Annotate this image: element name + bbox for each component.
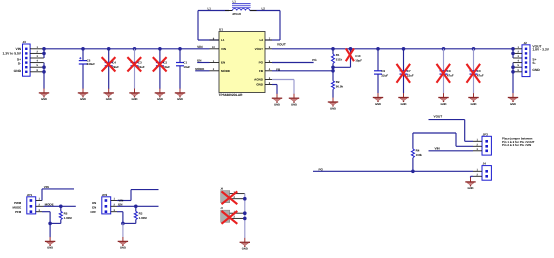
connector JP1 (MODE select): [27, 193, 44, 214]
J2 pin labels (VOUT 1.8V - 3.3V S+ S- GND): [532, 45, 549, 72]
svg-text:TPS63802DLAR: TPS63802DLAR: [219, 94, 243, 98]
wire L1/L2 inductor loop: [198, 11, 280, 41]
svg-text:R1: R1: [336, 54, 340, 57]
node VIN (net stub at JP2): [117, 190, 159, 203]
svg-text:5: 5: [37, 64, 39, 67]
ground (C4): [104, 89, 114, 102]
connector J7 (DNP): [220, 207, 245, 224]
svg-text:PG: PG: [312, 59, 317, 63]
svg-text:AGND: AGND: [254, 78, 263, 82]
svg-text:6: 6: [518, 69, 520, 72]
connector J2: [513, 41, 530, 76]
svg-text:C7: C7: [407, 69, 411, 73]
svg-text:5: 5: [269, 60, 271, 63]
svg-text:GND: GND: [330, 107, 336, 110]
svg-text:10: 10: [212, 46, 215, 49]
svg-text:470nH: 470nH: [232, 13, 241, 17]
svg-text:1: 1: [477, 169, 479, 172]
svg-text:R5: R5: [64, 213, 68, 216]
J3 pin labels (VIN 1.3V to 5.5V S+ S- GND): [2, 48, 21, 73]
connector JP2 (EN select): [102, 193, 117, 214]
JP2 position labels (ON EN OFF): [90, 201, 96, 214]
connector J4 (PG header): [473, 162, 491, 180]
ground (C9): [468, 93, 478, 106]
svg-text:C8: C8: [447, 69, 451, 73]
wire U1 GND to ground: [272, 85, 277, 95]
ground (C6): [373, 93, 383, 106]
svg-text:J7: J7: [220, 207, 223, 210]
svg-text:L2: L2: [262, 7, 265, 11]
ground (JP2): [118, 237, 128, 250]
wire FB net + label: [272, 68, 333, 72]
wire JP1 pin3 / R5 to ground: [42, 212, 61, 238]
svg-text:L2: L2: [259, 39, 263, 43]
svg-text:2: 2: [114, 204, 116, 207]
svg-text:GND: GND: [80, 98, 86, 101]
svg-text:2: 2: [477, 144, 479, 147]
capacitor C2 10uF (DNP): [153, 49, 170, 89]
wire PG net + label: [313, 168, 473, 172]
svg-text:9: 9: [213, 37, 215, 40]
svg-text:1.3V to 5.5V: 1.3V to 5.5V: [2, 52, 21, 56]
connector JP3 (PG pull-up select): [465, 133, 492, 155]
svg-text:ON: ON: [92, 201, 96, 205]
svg-text:VIN: VIN: [221, 48, 226, 52]
svg-text:JP1: JP1: [27, 193, 33, 197]
svg-text:VIN: VIN: [16, 48, 22, 52]
wire J3 pins 4-6 to GND: [42, 63, 46, 89]
svg-text:1: 1: [477, 139, 479, 142]
note text (jumper placement): [502, 137, 535, 147]
svg-text:3: 3: [269, 77, 271, 80]
wire VOUT rail: [272, 47, 513, 51]
svg-text:PG: PG: [259, 61, 264, 64]
svg-text:100k: 100k: [416, 153, 423, 157]
node L2 (net label): [262, 7, 265, 11]
capacitor C6 22uF: [374, 49, 388, 94]
svg-text:90.9k: 90.9k: [336, 85, 344, 89]
svg-text:6: 6: [37, 69, 39, 72]
svg-text:8: 8: [269, 82, 271, 85]
svg-text:GND: GND: [510, 103, 516, 106]
svg-text:4: 4: [518, 60, 520, 63]
wire J6/J7 to ground: [243, 194, 247, 238]
ground (C5): [78, 89, 88, 102]
svg-text:Place jumper between: Place jumper between: [502, 137, 533, 141]
resistor R3 1.00M: [134, 206, 146, 223]
ground (C3): [129, 89, 139, 102]
svg-text:J3: J3: [23, 41, 27, 45]
svg-text:3: 3: [39, 209, 41, 212]
svg-text:22uF: 22uF: [381, 74, 388, 78]
svg-text:EN: EN: [221, 61, 225, 64]
resistor R1 511k: [331, 49, 342, 73]
ground (U1 GND): [272, 94, 282, 107]
svg-text:10uF: 10uF: [183, 66, 190, 70]
svg-text:2: 2: [37, 50, 39, 53]
svg-text:S-: S-: [18, 62, 21, 66]
wire JP3 pin2 common: [413, 133, 473, 146]
svg-text:GND: GND: [106, 98, 112, 101]
svg-text:6: 6: [269, 46, 271, 49]
svg-text:Pin 2 & 3 for PG =VIN: Pin 2 & 3 for PG =VIN: [502, 144, 531, 148]
svg-text:1: 1: [39, 198, 41, 201]
svg-text:GND: GND: [375, 103, 381, 106]
svg-text:MODE: MODE: [221, 70, 230, 74]
svg-text:GND: GND: [132, 98, 138, 101]
svg-text:10pF: 10pF: [355, 59, 362, 63]
ground (C8): [438, 93, 448, 106]
svg-text:VIN: VIN: [435, 147, 440, 151]
wire VIN rail: [44, 47, 210, 51]
wire J2 pins 1-3 to VOUT: [511, 47, 515, 58]
svg-text:GND: GND: [274, 104, 280, 107]
svg-text:C9: C9: [477, 69, 481, 73]
capacitor C4 22uF (DNP): [102, 49, 119, 89]
capacitor C8 47uF (DNP): [437, 49, 454, 94]
svg-text:GND: GND: [120, 247, 126, 250]
svg-text:GND: GND: [471, 103, 477, 106]
svg-text:GND: GND: [14, 70, 21, 74]
svg-text:1.00M: 1.00M: [64, 217, 72, 221]
svg-text:Pin 1 & 2 for PG =VOUT: Pin 1 & 2 for PG =VOUT: [502, 140, 535, 144]
svg-text:FB: FB: [276, 68, 280, 72]
node L1 (net label): [208, 7, 212, 10]
capacitor C3 22uF (DNP): [127, 49, 144, 89]
svg-text:4: 4: [37, 60, 39, 63]
svg-text:GND: GND: [532, 68, 539, 72]
svg-text:C10: C10: [355, 55, 360, 59]
ground (C7): [398, 93, 408, 106]
svg-text:PG: PG: [319, 168, 324, 172]
svg-text:2: 2: [518, 50, 520, 53]
svg-text:47uF: 47uF: [447, 74, 454, 77]
svg-text:3: 3: [518, 55, 520, 58]
svg-text:4: 4: [269, 68, 271, 71]
node VOUT (label on rail): [277, 43, 286, 47]
svg-text:3: 3: [37, 55, 39, 58]
svg-text:GND: GND: [468, 187, 474, 190]
ground (U1 AGND): [289, 94, 299, 107]
svg-text:2: 2: [234, 216, 236, 219]
svg-text:C1: C1: [183, 61, 187, 65]
svg-text:S+: S+: [17, 58, 21, 62]
svg-text:L1: L1: [233, 1, 237, 4]
capacitor C5 330uF: [79, 49, 95, 89]
ground (J3): [39, 89, 49, 102]
capacitor C9 47uF (DNP): [467, 49, 484, 94]
svg-text:330uF: 330uF: [87, 62, 96, 66]
svg-text:GND: GND: [157, 98, 163, 101]
svg-text:S-: S-: [532, 62, 535, 66]
ground (C1): [175, 89, 185, 102]
svg-text:EN: EN: [118, 203, 122, 207]
resistor R4 100k: [411, 133, 422, 173]
svg-text:C6: C6: [381, 69, 385, 73]
svg-text:R2: R2: [336, 81, 340, 85]
inductor L1 470nH: [225, 1, 257, 17]
ground (J4): [465, 178, 475, 191]
svg-text:GND: GND: [177, 98, 183, 101]
connector J3: [23, 41, 44, 77]
svg-text:VOUT: VOUT: [255, 48, 264, 52]
svg-text:GND: GND: [441, 103, 447, 106]
svg-text:GND: GND: [41, 98, 47, 101]
svg-text:GND: GND: [256, 83, 263, 87]
U1 right pins 7 L2 / 6 VOUT / 5 PG / 4 FB / 3 AGND / 8 GND: [254, 37, 272, 86]
wire MODE net at JP1 + label: [44, 203, 76, 208]
svg-text:U1: U1: [219, 28, 223, 32]
svg-text:3: 3: [477, 148, 479, 151]
svg-text:JP3: JP3: [483, 133, 489, 137]
node VIN (label near U1): [197, 46, 203, 50]
svg-text:OFF: OFF: [90, 211, 96, 215]
svg-text:R3: R3: [139, 212, 143, 216]
svg-text:JP2: JP2: [102, 193, 108, 197]
svg-text:GND: GND: [291, 104, 297, 107]
svg-text:VIN: VIN: [118, 199, 123, 203]
capacitor C1 10uF: [176, 49, 190, 89]
resistor R5 1.00M: [59, 206, 71, 223]
node VOUT (net stub at JP3): [429, 115, 465, 141]
svg-text:1: 1: [114, 198, 116, 201]
wire JP2 pin3 / R3 to ground: [117, 212, 136, 238]
ground (C2): [155, 89, 165, 102]
node EN (net label + wire): [197, 59, 209, 63]
connector J6 (DNP): [220, 188, 245, 205]
wire PG net + label: [272, 59, 317, 63]
svg-text:C5: C5: [87, 59, 91, 63]
svg-text:22uF: 22uF: [407, 74, 414, 78]
ground (J6/J7): [240, 238, 250, 251]
svg-text:2: 2: [39, 204, 41, 207]
svg-text:1.8V - 3.3V: 1.8V - 3.3V: [532, 48, 549, 52]
ground (J2): [508, 93, 518, 106]
JP1 position labels (PWM MODE PFM): [12, 202, 21, 214]
svg-text:2: 2: [234, 196, 236, 199]
node VIN (net stub at JP3): [429, 147, 474, 151]
capacitor C10 10pF (DNP): [333, 48, 362, 67]
svg-text:GND: GND: [242, 248, 248, 251]
capacitor C7 22uF (DNP): [397, 49, 414, 94]
svg-text:1: 1: [518, 46, 520, 49]
node MODE (net label + wire): [195, 68, 209, 72]
wire J4 pin2 to ground: [471, 176, 474, 177]
svg-text:EN: EN: [92, 207, 96, 210]
svg-text:VIN: VIN: [44, 186, 49, 190]
svg-text:511k: 511k: [336, 58, 343, 62]
svg-text:MODE: MODE: [12, 206, 21, 210]
svg-text:S+: S+: [532, 58, 536, 62]
node VIN (net stub at JP1): [42, 186, 74, 201]
svg-text:GND: GND: [47, 247, 53, 250]
svg-text:J4: J4: [483, 162, 487, 166]
svg-text:GND: GND: [401, 103, 407, 106]
svg-text:2: 2: [477, 174, 479, 177]
svg-text:FB: FB: [259, 70, 263, 74]
svg-text:PWM: PWM: [14, 202, 21, 205]
wire U1 AGND to ground: [272, 80, 294, 95]
svg-text:MODE: MODE: [45, 203, 54, 207]
svg-text:R4: R4: [416, 149, 420, 152]
wire EN net at JP2 + label: [117, 203, 159, 208]
svg-text:1: 1: [213, 60, 215, 63]
svg-text:L1: L1: [208, 7, 212, 10]
wire J3 pins 1-3 to VIN: [42, 47, 46, 58]
ground (JP1): [45, 237, 55, 250]
svg-text:J6: J6: [220, 188, 223, 191]
svg-text:J2: J2: [524, 41, 528, 45]
wire J2 pins 4-6 to GND: [511, 63, 515, 94]
op-amp U1 TPS63802DLAR body: [219, 28, 266, 97]
svg-text:1: 1: [37, 46, 39, 49]
svg-text:VOUT: VOUT: [434, 115, 443, 119]
U1 left pins 9 L1 / 10 VIN / 1 EN / 2 MODE: [210, 37, 231, 73]
svg-text:47uF: 47uF: [477, 74, 484, 77]
svg-text:2: 2: [213, 68, 215, 71]
ground (R2): [328, 98, 338, 111]
svg-text:3: 3: [114, 209, 116, 212]
svg-text:7: 7: [269, 37, 271, 40]
svg-text:VOUT: VOUT: [277, 43, 286, 47]
svg-text:1.00M: 1.00M: [139, 217, 147, 221]
svg-text:VIN: VIN: [197, 46, 203, 50]
svg-text:5: 5: [518, 64, 520, 67]
svg-text:L1: L1: [221, 39, 225, 43]
resistor R2 90.9k: [332, 71, 344, 98]
svg-text:PFM: PFM: [15, 211, 21, 214]
